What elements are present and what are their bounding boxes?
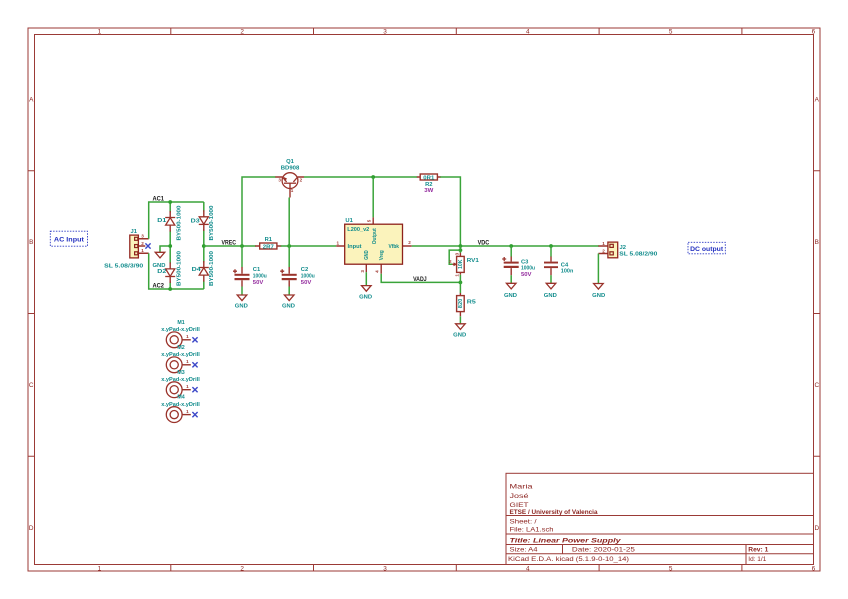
- capacitor C3: [502, 246, 535, 283]
- svg-text:D4: D4: [192, 267, 201, 273]
- wire VREC to R1: [204, 245, 256, 247]
- resistor R1: [255, 237, 281, 250]
- node bridge gnd: [168, 244, 172, 248]
- text note DC output: [688, 242, 725, 254]
- svg-text:Date: 2020-01-25: Date: 2020-01-25: [572, 547, 636, 554]
- svg-text:SL 5.08/2/90: SL 5.08/2/90: [619, 252, 657, 258]
- node wiper tap: [459, 248, 463, 252]
- svg-text:Input: Input: [348, 244, 362, 250]
- svg-text:D1: D1: [157, 218, 166, 224]
- wire Q1 base down: [288, 198, 290, 247]
- svg-text:1: 1: [186, 359, 189, 364]
- svg-text:M2: M2: [177, 345, 184, 351]
- svg-text:C1: C1: [253, 267, 261, 273]
- svg-text:2: 2: [240, 565, 244, 572]
- svg-text:GND: GND: [504, 293, 517, 299]
- ground of J2: [592, 284, 605, 299]
- wire Vfbk to VDC to J2: [412, 245, 599, 247]
- svg-text:L200_v2: L200_v2: [347, 227, 369, 233]
- mounting hole M1: [161, 320, 200, 348]
- node C2 top / Q1 base: [287, 244, 291, 248]
- svg-text:VADJ: VADJ: [413, 276, 427, 283]
- resistor R5: [457, 293, 477, 316]
- wire RV1 top: [459, 246, 461, 253]
- regulator U1: [336, 217, 412, 273]
- node VREC: [202, 244, 206, 248]
- svg-text:1000u: 1000u: [521, 266, 535, 272]
- svg-text:GND: GND: [359, 294, 372, 300]
- svg-text:C3: C3: [521, 259, 529, 265]
- svg-text:R5: R5: [467, 300, 477, 306]
- capacitor C4: [544, 246, 573, 283]
- svg-text:50V: 50V: [253, 280, 264, 286]
- no-connect M1: [192, 337, 197, 342]
- svg-text:M4: M4: [177, 395, 184, 401]
- svg-text:0R1: 0R1: [423, 175, 434, 181]
- svg-text:1: 1: [98, 565, 102, 572]
- svg-text:10K: 10K: [458, 259, 464, 269]
- svg-text:SL 5.08/3/90: SL 5.08/3/90: [104, 263, 143, 269]
- svg-text:3W: 3W: [424, 188, 434, 194]
- svg-text:1: 1: [186, 384, 189, 389]
- wire GND stub of bridge: [160, 246, 170, 252]
- wire D1 column: [169, 202, 171, 246]
- ground of C3: [504, 283, 517, 299]
- ground of U1: [359, 272, 372, 300]
- svg-text:J1: J1: [131, 229, 138, 235]
- node U1 output: [371, 175, 375, 179]
- node AC2-D2: [168, 287, 172, 291]
- svg-text:B: B: [815, 239, 819, 246]
- svg-text:BD908: BD908: [281, 166, 300, 172]
- svg-text:50V: 50V: [301, 280, 312, 286]
- svg-text:Sheet: /: Sheet: /: [510, 518, 537, 525]
- svg-text:GND: GND: [235, 304, 248, 310]
- svg-text:1000u: 1000u: [253, 273, 267, 279]
- ground of C1: [235, 295, 248, 310]
- svg-text:5: 5: [366, 219, 371, 222]
- svg-text:M1: M1: [177, 320, 184, 326]
- svg-text:3: 3: [278, 177, 281, 182]
- wire D4 column: [203, 246, 205, 289]
- svg-text:GND: GND: [153, 263, 166, 269]
- svg-text:1000u: 1000u: [301, 273, 315, 279]
- svg-text:D: D: [29, 525, 34, 532]
- node C3 top: [509, 244, 513, 248]
- wire riser to top rail: [242, 177, 276, 246]
- wire D3 column: [203, 202, 205, 246]
- ground of C4: [544, 283, 557, 299]
- svg-text:José: José: [510, 493, 530, 500]
- svg-text:1: 1: [141, 248, 144, 253]
- svg-text:VDC: VDC: [478, 240, 490, 247]
- diode D2: [157, 251, 182, 286]
- transistor Q1: [275, 159, 304, 198]
- ground of C2: [282, 295, 295, 310]
- svg-text:3: 3: [360, 270, 365, 273]
- svg-text:DC output: DC output: [690, 246, 724, 253]
- svg-text:GND: GND: [364, 250, 370, 260]
- svg-text:3: 3: [141, 234, 144, 239]
- svg-text:1: 1: [186, 409, 189, 414]
- svg-text:ETSE / University of Valencia: ETSE / University of Valencia: [510, 509, 598, 516]
- svg-text:M3: M3: [177, 370, 184, 376]
- svg-text:5: 5: [669, 28, 673, 35]
- diode D1: [157, 205, 182, 240]
- svg-text:Vfbk: Vfbk: [389, 244, 400, 250]
- mounting hole M4: [161, 395, 200, 423]
- svg-text:3: 3: [383, 28, 387, 35]
- ground of R5: [453, 316, 466, 338]
- node VDC junction: [459, 244, 463, 248]
- net label AC2: [153, 283, 165, 290]
- wire D2 column: [169, 246, 171, 289]
- svg-text:BY500-1000: BY500-1000: [177, 205, 183, 240]
- connector J1: [104, 229, 149, 269]
- svg-text:AC1: AC1: [153, 196, 165, 203]
- wire wiper loop: [449, 250, 460, 264]
- svg-text:AC Input: AC Input: [54, 237, 85, 244]
- ground of bridge: [153, 252, 166, 268]
- no-connect J1 pin 2: [145, 243, 150, 248]
- svg-text:B: B: [29, 239, 33, 246]
- text note AC Input: [50, 231, 87, 246]
- svg-text:1: 1: [291, 188, 294, 193]
- svg-text:BY500-1000: BY500-1000: [209, 205, 215, 240]
- svg-text:Vreg: Vreg: [379, 250, 385, 260]
- net label VADJ: [413, 276, 427, 283]
- svg-text:BY500-1000: BY500-1000: [209, 251, 215, 286]
- diode D3: [191, 205, 215, 240]
- svg-text:D3: D3: [191, 218, 200, 224]
- svg-text:A: A: [815, 96, 820, 103]
- net label AC1: [153, 196, 165, 203]
- svg-text:6: 6: [812, 565, 816, 572]
- capacitor C2: [280, 246, 315, 295]
- svg-text:2R7: 2R7: [263, 244, 274, 250]
- wire VADJ to R5: [459, 282, 461, 293]
- wire R1 to U1 input: [281, 245, 337, 247]
- no-connect M3: [192, 387, 197, 392]
- capacitor C1: [233, 246, 267, 295]
- svg-text:2: 2: [449, 259, 452, 264]
- svg-text:BY500-1000: BY500-1000: [177, 251, 183, 286]
- svg-text:4: 4: [375, 270, 380, 273]
- svg-text:x.yPad-x.yDrill: x.yPad-x.yDrill: [161, 352, 200, 358]
- svg-text:2: 2: [300, 178, 303, 183]
- svg-text:820: 820: [458, 299, 464, 309]
- wire J1 pin3 to AC1 rail: [149, 202, 204, 239]
- svg-text:VREC: VREC: [222, 239, 237, 246]
- svg-text:GND: GND: [453, 333, 466, 339]
- diode D4: [192, 251, 215, 286]
- svg-text:1: 1: [98, 28, 102, 35]
- svg-text:C: C: [814, 382, 819, 389]
- svg-text:2: 2: [141, 241, 144, 246]
- mounting hole M2: [161, 345, 200, 373]
- potentiometer RV1: [449, 252, 480, 276]
- svg-text:5: 5: [669, 565, 673, 572]
- svg-text:1: 1: [337, 240, 340, 245]
- svg-text:50V: 50V: [521, 272, 532, 278]
- wire RV1 bottom to VADJ: [459, 275, 461, 283]
- svg-text:x.yPad-x.yDrill: x.yPad-x.yDrill: [161, 377, 200, 383]
- wire R2 to VDC corner: [440, 177, 460, 246]
- node C4 top: [549, 244, 553, 248]
- no-connect M4: [192, 412, 197, 417]
- svg-text:6: 6: [812, 28, 816, 35]
- svg-text:x.yPad-x.yDrill: x.yPad-x.yDrill: [161, 402, 200, 408]
- svg-text:Size: A4: Size: A4: [510, 547, 539, 554]
- svg-text:1: 1: [454, 274, 459, 277]
- node C1 top: [240, 244, 244, 248]
- svg-text:File: LA1.sch: File: LA1.sch: [510, 527, 555, 534]
- svg-text:3: 3: [383, 565, 387, 572]
- svg-text:R1: R1: [265, 237, 273, 243]
- connector J2: [598, 241, 657, 258]
- title block: [506, 473, 814, 564]
- svg-text:U1: U1: [345, 218, 353, 224]
- svg-text:Maria: Maria: [510, 484, 534, 491]
- svg-text:4: 4: [526, 28, 530, 35]
- wire U1 output riser: [372, 177, 374, 217]
- wire J1 pin1 to AC2 rail: [149, 253, 204, 289]
- net label VREC: [222, 239, 237, 246]
- svg-text:Q1: Q1: [286, 159, 295, 165]
- svg-text:2: 2: [240, 28, 244, 35]
- svg-text:RV1: RV1: [467, 258, 480, 264]
- svg-text:2: 2: [602, 249, 605, 254]
- svg-text:2: 2: [408, 240, 411, 245]
- mounting hole M3: [161, 370, 200, 398]
- svg-text:C4: C4: [561, 262, 569, 268]
- svg-text:D2: D2: [157, 269, 166, 275]
- svg-text:4: 4: [526, 565, 530, 572]
- svg-text:GND: GND: [592, 293, 605, 299]
- svg-text:AC2: AC2: [153, 283, 165, 290]
- svg-text:C: C: [29, 382, 34, 389]
- svg-text:GND: GND: [282, 304, 295, 310]
- svg-text:A: A: [29, 96, 34, 103]
- svg-text:Output: Output: [372, 228, 378, 244]
- node AC1-D1: [168, 200, 172, 204]
- svg-text:KiCad E.D.A. kicad (5.1.9-0-1: KiCad E.D.A. kicad (5.1.9-0-10_14): [508, 556, 629, 563]
- resistor R2: [417, 174, 441, 194]
- svg-text:C2: C2: [301, 267, 308, 273]
- svg-text:Title: Linear Power Supply: Title: Linear Power Supply: [510, 537, 622, 544]
- svg-text:J2: J2: [620, 245, 626, 251]
- svg-text:x.yPad-x.yDrill: x.yPad-x.yDrill: [161, 327, 200, 333]
- svg-text:Id: 1/1: Id: 1/1: [748, 556, 766, 563]
- wire collector rail: [304, 176, 417, 178]
- svg-text:D: D: [814, 525, 819, 532]
- node VADJ junction: [459, 281, 463, 285]
- svg-text:Rev: 1: Rev: 1: [748, 547, 768, 554]
- net label VDC: [478, 240, 490, 247]
- svg-text:100n: 100n: [561, 269, 574, 275]
- svg-text:1: 1: [602, 241, 605, 246]
- wire Vreg to VADJ: [381, 274, 460, 283]
- svg-text:3: 3: [454, 252, 459, 255]
- svg-text:1: 1: [186, 334, 189, 339]
- no-connect M2: [192, 362, 197, 367]
- svg-text:GND: GND: [544, 293, 557, 299]
- wire J2 pin2 to gnd: [597, 254, 599, 284]
